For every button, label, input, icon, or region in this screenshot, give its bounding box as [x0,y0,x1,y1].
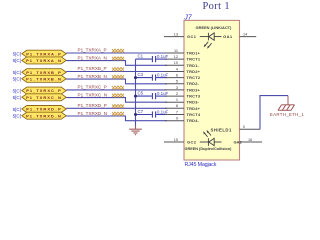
differential pair marker [112,75,124,79]
svg-text:EARTH_ETH_1: EARTH_ETH_1 [270,112,304,117]
svg-text:5[C]: 5[C] [13,107,21,112]
differential pair marker [112,68,124,72]
svg-text:RJ45 Magjack: RJ45 Magjack [185,162,217,168]
svg-text:11: 11 [174,49,178,53]
svg-text:3: 3 [176,86,178,90]
svg-text:P1_TXRXC_N: P1_TXRXC_N [78,93,108,98]
pin 3 TRD3+ [165,86,201,93]
capacitor C1 0.1uF [136,56,168,62]
svg-text:TRCT1: TRCT1 [187,57,201,62]
differential pair marker [112,86,124,90]
junction [134,76,137,79]
pin 1 TRD3- [165,98,200,105]
svg-text:SHIELD1: SHIELD1 [211,127,232,132]
pin 11 TRD1+ [165,49,201,56]
svg-text:15: 15 [174,138,178,142]
svg-text:GREEN (Duplex/Collision): GREEN (Duplex/Collision) [185,147,233,151]
capacitor C5 0.1uF [136,93,168,99]
svg-text:GREEN (LINK/ACT): GREEN (LINK/ACT) [196,25,232,30]
LED link/act D1 [200,33,222,49]
svg-text:12: 12 [174,55,178,59]
svg-text:C3: C3 [138,72,144,77]
svg-text:5[C]: 5[C] [13,58,21,63]
svg-text:GA1: GA1 [223,34,233,39]
svg-text:0: 0 [243,125,245,129]
svg-text:TRD4+: TRD4+ [187,106,201,111]
svg-text:TRD2-: TRD2- [187,81,200,86]
pin 5 TRD2- [165,80,200,87]
junction [134,113,137,116]
svg-text:8: 8 [176,104,178,108]
pin 8 TRD4+ [165,104,201,111]
port P1_TXRXB_N [22,75,66,82]
svg-text:P1_TXRXC_N: P1_TXRXC_N [26,95,62,100]
svg-text:2: 2 [176,92,178,96]
svg-text:P1_TXRXB_P: P1_TXRXB_P [78,66,107,71]
svg-text:P1_TXRXA_N: P1_TXRXA_N [78,56,107,61]
pin 7 TRCT4 [165,110,201,117]
ground [129,126,142,135]
svg-text:P1_TXRXC_P: P1_TXRXC_P [26,88,62,93]
svg-text:5[C]: 5[C] [13,114,21,119]
svg-text:TRCT3: TRCT3 [187,94,201,99]
wire P1_TXRXD_P [66,107,167,109]
wire shield to earth [260,96,288,130]
svg-text:P1_TXRXD_N: P1_TXRXD_N [78,111,108,116]
svg-text:Port 1: Port 1 [202,1,230,12]
svg-text:P1_TXRXD_P: P1_TXRXD_P [26,107,62,112]
svg-text:P1_TXRXB_N: P1_TXRXB_N [78,74,107,79]
port P1_TXRXC_N [22,94,66,101]
svg-text:16: 16 [248,138,252,142]
svg-text:5[C]: 5[C] [13,70,21,75]
svg-text:TRD4-: TRD4- [187,118,200,123]
svg-text:P1_TXRXC_P: P1_TXRXC_P [78,85,107,90]
differential pair marker [112,49,124,53]
svg-text:6: 6 [176,74,178,78]
svg-text:10: 10 [174,61,178,65]
svg-text:7: 7 [176,110,178,114]
LED duplex/collision D2 [200,130,222,146]
wire P1_TXRXB_P [66,71,167,73]
svg-text:0.1uF: 0.1uF [157,72,169,77]
svg-text:9: 9 [176,117,178,121]
svg-text:TRD2+: TRD2+ [187,69,201,74]
port P1_TXRXD_P [22,106,66,113]
pin 15 GC2 [164,138,197,145]
pin 6 TRCT2 [165,74,201,81]
pin 16 GA2 [234,138,263,145]
svg-text:P1_TXRXA_P: P1_TXRXA_P [78,48,107,53]
svg-text:P1_TXRXD_N: P1_TXRXD_N [26,113,62,118]
svg-text:0.1uF: 0.1uF [157,91,169,96]
svg-text:14: 14 [243,33,247,37]
svg-text:TRD1+: TRD1+ [187,51,201,56]
wire P1_TXRXC_N [66,98,167,103]
wire P1_TXRXD_N [66,116,167,121]
pin 2 TRCT3 [165,92,201,99]
port P1_TXRXC_P [22,87,66,94]
capacitor C7 0.1uF [136,111,168,117]
differential pair marker [112,112,124,116]
svg-text:GC2: GC2 [187,140,197,145]
svg-text:TRD3+: TRD3+ [187,87,201,92]
differential pair marker [112,94,124,98]
pin 4 TRD2+ [165,67,201,74]
port P1_TXRXB_P [22,69,66,76]
port P1_TXRXA_P [22,50,66,57]
wire P1_TXRXC_P [66,89,167,91]
junction [134,95,137,98]
svg-text:5[C]: 5[C] [13,77,21,82]
chassis earth EARTH_ETH_1 [278,96,295,111]
svg-text:TRD3-: TRD3- [187,100,200,105]
differential pair marker [112,57,124,60]
pin 0 SHIELD1 [211,125,261,132]
svg-text:4: 4 [176,67,178,71]
svg-text:GA2: GA2 [234,140,243,145]
svg-text:5[C]: 5[C] [13,95,21,100]
pin 13 GC1 [164,33,197,40]
svg-text:J7: J7 [183,14,193,21]
svg-text:TRCT4: TRCT4 [187,112,201,117]
svg-text:5[C]: 5[C] [13,88,21,93]
wire P1_TXRXB_N [66,79,167,84]
connector J7 RJ45 Magjack body [184,20,240,160]
svg-text:C1: C1 [138,54,144,59]
pin 12 TRCT1 [165,55,201,62]
port P1_TXRXA_N [22,57,66,64]
wire ground bus [135,59,137,127]
wire P1_TXRXA_P [66,52,167,54]
svg-text:P1_TXRXB_N: P1_TXRXB_N [26,76,62,81]
svg-text:5: 5 [176,80,178,84]
svg-text:0.1uF: 0.1uF [157,109,169,114]
svg-text:C7: C7 [138,109,144,114]
svg-text:1: 1 [176,98,178,102]
wire P1_TXRXA_N [66,61,167,66]
svg-text:13: 13 [174,33,178,37]
pin 10 TRD1- [165,61,200,68]
svg-text:P1_TXRXB_P: P1_TXRXB_P [26,70,62,75]
pin 14 GA1 [223,33,256,40]
svg-text:P1_TXRXA_N: P1_TXRXA_N [26,58,62,63]
svg-text:5[C]: 5[C] [13,52,21,57]
svg-text:P1_TXRXD_P: P1_TXRXD_P [78,103,107,108]
svg-text:0.1uF: 0.1uF [157,54,169,59]
svg-text:GC1: GC1 [187,34,197,39]
pin 9 TRD4- [165,117,200,124]
svg-text:TRD1-: TRD1- [187,63,200,68]
svg-text:TRCT2: TRCT2 [187,75,201,80]
differential pair marker [112,104,124,108]
svg-text:P1_TXRXA_P: P1_TXRXA_P [26,51,62,56]
svg-text:C5: C5 [138,91,144,96]
capacitor C3 0.1uF [136,75,168,81]
port P1_TXRXD_N [22,112,66,119]
